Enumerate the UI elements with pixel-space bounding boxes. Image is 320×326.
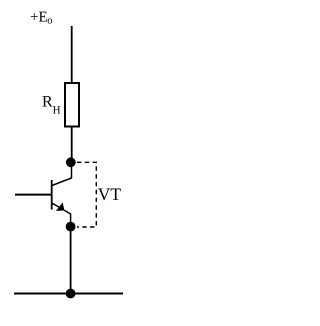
transistor VT emitter lead [52, 203, 71, 224]
wire from emitter node to bottom rail [70, 229, 72, 294]
transistor VT emitter arrow (PNP, points toward base) [56, 202, 64, 211]
svg-text:o: o [47, 16, 52, 27]
bottom rail wire [14, 293, 123, 295]
wire from +Eo to resistor top [71, 26, 73, 83]
svg-text:H: H [53, 104, 61, 116]
svg-text:VT: VT [98, 184, 122, 204]
transistor VT base lead [15, 194, 53, 196]
node A (collector junction) [66, 157, 76, 167]
node B (emitter junction) [66, 222, 76, 232]
node C (bottom rail junction) [66, 289, 76, 299]
transistor VT base bar [51, 180, 53, 210]
wire from resistor bottom to collector node [71, 127, 73, 160]
svg-text:R: R [42, 94, 53, 111]
resistor RH [65, 83, 79, 127]
svg-text:+E: +E [30, 9, 48, 25]
transistor VT collector lead [52, 164, 72, 186]
dashed enclosure around VT [77, 162, 96, 227]
